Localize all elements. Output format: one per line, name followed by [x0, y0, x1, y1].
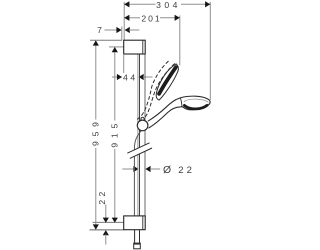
- bar bottom stem: [135, 230, 140, 243]
- slider holder: [137, 117, 148, 130]
- wall bar tube: [138, 54, 145, 216]
- wall bracket top: [124, 40, 146, 54]
- dimension 304: [124, 0, 210, 10]
- svg-text:201: 201: [141, 13, 161, 23]
- dimension diameter 22: [122, 165, 195, 176]
- dimension 959: [90, 40, 100, 229]
- extension line bar bottom end: [90, 229, 124, 231]
- svg-text:22: 22: [97, 188, 107, 204]
- extension line head-201 (right ref): [179, 16, 181, 66]
- svg-text:915: 915: [109, 119, 119, 148]
- dimension 22 bottom: [97, 188, 109, 244]
- break symbol: [127, 143, 152, 159]
- svg-text:304: 304: [156, 0, 181, 10]
- svg-text:Ø22: Ø22: [163, 165, 195, 176]
- hand shower lower head: [177, 96, 210, 110]
- svg-text:44: 44: [123, 72, 138, 82]
- extension line bar-top-offset: [121, 27, 123, 41]
- extension line bar top end: [90, 39, 122, 41]
- dimension 7: [97, 25, 139, 35]
- extension line head-304 (far right ref): [209, 2, 211, 100]
- wall bracket bottom: [124, 216, 146, 230]
- dimension 915: [109, 47, 119, 223]
- shower hose: [134, 131, 141, 216]
- bar end cap: [134, 243, 141, 249]
- extension line top bracket center: [109, 46, 124, 48]
- svg-text:959: 959: [90, 117, 100, 146]
- dashed handle upper position: [135, 61, 175, 120]
- hand shower upper position head: [156, 64, 178, 100]
- extension line bottom bracket center: [93, 221, 124, 223]
- svg-text:7: 7: [97, 25, 102, 35]
- dimension 44: [112, 55, 153, 82]
- dimension 201: [124, 13, 180, 23]
- hand shower handle solid: [148, 99, 180, 128]
- extension line wall (left ref): [123, 2, 125, 40]
